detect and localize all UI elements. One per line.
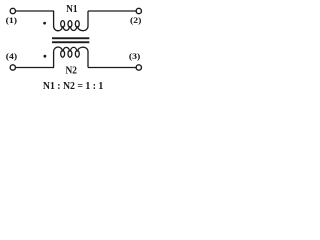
svg-text:(3): (3) bbox=[129, 52, 140, 61]
terminal (1) bbox=[10, 8, 15, 13]
wire bottom-left bbox=[15, 67, 54, 69]
wire bottom-right bbox=[88, 67, 136, 69]
wire top-left bbox=[15, 10, 54, 12]
terminal (3) bbox=[136, 65, 141, 70]
svg-text:N2: N2 bbox=[65, 65, 77, 76]
svg-text:(2): (2) bbox=[130, 15, 141, 24]
svg-text:N1 : N2 = 1 : 1: N1 : N2 = 1 : 1 bbox=[43, 81, 103, 92]
wire top-right bbox=[88, 10, 136, 12]
svg-text:N1: N1 bbox=[66, 4, 78, 15]
winding N2 bbox=[54, 47, 88, 68]
svg-text:(1): (1) bbox=[6, 15, 17, 24]
transformer core line 2 bbox=[52, 41, 89, 43]
winding N1 bbox=[54, 11, 88, 31]
transformer core line 1 bbox=[52, 37, 89, 39]
terminal (4) bbox=[10, 65, 15, 70]
svg-text:(4): (4) bbox=[6, 52, 17, 61]
polarity dot N2 bbox=[44, 55, 47, 58]
terminal (2) bbox=[136, 8, 141, 13]
polarity dot N1 bbox=[43, 22, 46, 25]
